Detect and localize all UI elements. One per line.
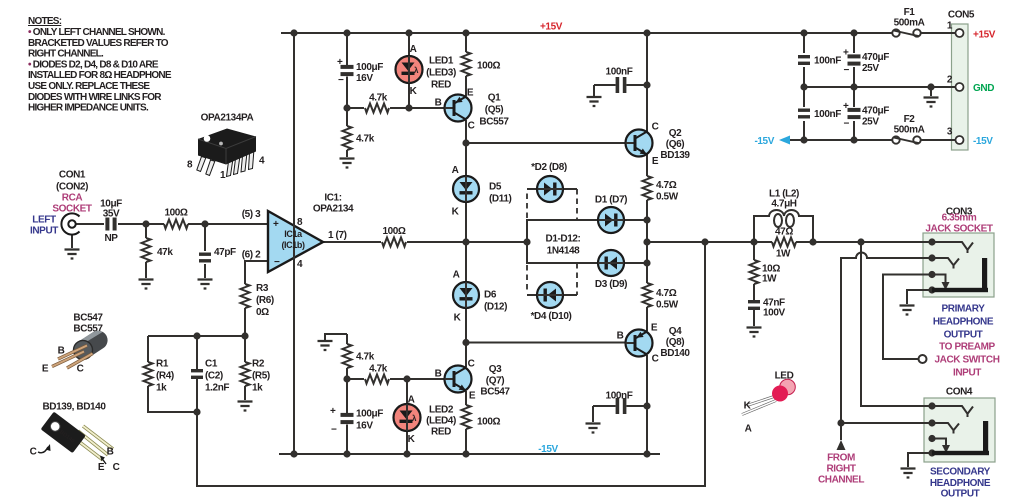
svg-text:25V: 25V	[862, 63, 879, 74]
INDUCTOR L1	[769, 210, 799, 227]
capacitor 470uF psu2	[848, 108, 861, 119]
svg-text:100nF: 100nF	[814, 56, 841, 67]
capacitor 100nF top	[616, 77, 627, 93]
resistor 4.7k bottom vertical	[343, 344, 352, 368]
svg-text:(Q5): (Q5)	[485, 105, 503, 116]
node input dots	[142, 220, 149, 227]
svg-text:INSTALLED FOR 8Ω HEADPHONE: INSTALLED FOR 8Ω HEADPHONE	[28, 70, 172, 81]
svg-text:OPA2134PA: OPA2134PA	[201, 113, 254, 124]
svg-text:E: E	[652, 156, 659, 167]
resistor 47R output	[772, 238, 796, 247]
svg-text:100nF: 100nF	[606, 391, 633, 402]
svg-text:R2: R2	[252, 359, 265, 370]
svg-text:47pF: 47pF	[214, 247, 236, 258]
resistor 4.7k top vertical	[343, 126, 352, 150]
svg-text:*D2 (D8): *D2 (D8)	[531, 162, 567, 173]
svg-text:(LED3): (LED3)	[426, 68, 456, 79]
svg-text:(R6): (R6)	[256, 295, 274, 306]
svg-text:100μF: 100μF	[356, 62, 383, 73]
resistor R2	[241, 362, 250, 386]
svg-text:NOTES:: NOTES:	[28, 16, 62, 27]
wire power gnd row	[804, 87, 951, 96]
svg-text:4.7k: 4.7k	[356, 352, 375, 363]
svg-text:8: 8	[187, 160, 193, 171]
svg-text:F2: F2	[904, 114, 916, 125]
wire CON3 sleeve ground	[907, 290, 928, 304]
svg-text:2: 2	[947, 75, 953, 86]
svg-text:RCA: RCA	[62, 193, 83, 204]
svg-text:USE ONLY. REPLACE THESE: USE ONLY. REPLACE THESE	[28, 81, 150, 92]
svg-text:(CON2): (CON2)	[56, 182, 88, 193]
CON4 box	[921, 398, 995, 462]
svg-text:(C2): (C2)	[205, 371, 223, 382]
svg-text:LEFT: LEFT	[32, 215, 56, 226]
ground 47k	[139, 280, 154, 289]
svg-text:• DIODES D2, D4, D8 & D10 ARE: • DIODES D2, D4, D8 & D10 ARE	[28, 59, 159, 70]
LED2	[394, 404, 421, 431]
transistor Q4 PNP	[626, 330, 653, 357]
transistor Q1 PNP	[445, 95, 472, 122]
ground 100nF top	[587, 97, 602, 106]
svg-text:+15V: +15V	[973, 30, 996, 41]
svg-text:R3: R3	[256, 283, 269, 294]
svg-text:A: A	[453, 270, 460, 281]
svg-text:CON5: CON5	[948, 10, 975, 21]
svg-text:(IC1b): (IC1b)	[281, 240, 305, 250]
svg-text:JACK SOCKET: JACK SOCKET	[925, 224, 993, 235]
svg-text:-15V: -15V	[973, 136, 993, 147]
svg-text:-15V: -15V	[538, 444, 558, 455]
svg-text:6.35mm: 6.35mm	[942, 213, 977, 224]
svg-text:HIGHER IMPEDANCE UNITS.: HIGHER IMPEDANCE UNITS.	[28, 103, 149, 114]
CON3 box	[921, 233, 994, 297]
svg-text:1W: 1W	[776, 249, 791, 260]
resistor 4.7k top horizontal	[365, 104, 389, 113]
wire CON4 sleeve ground	[908, 453, 928, 467]
svg-text:E: E	[98, 462, 105, 473]
svg-text:D1-D12:: D1-D12:	[546, 234, 581, 245]
wire Q1 collector chain x466	[465, 33, 467, 454]
svg-text:A: A	[452, 165, 459, 176]
svg-text:4.7μH: 4.7μH	[771, 199, 796, 210]
svg-text:RED: RED	[431, 80, 451, 91]
svg-text:4: 4	[259, 156, 265, 167]
ground 4.7k bottom	[318, 341, 333, 350]
wire 4.7k bottom-left branch	[325, 334, 347, 454]
wire LED1 branch	[408, 33, 410, 108]
wire L1 loop	[754, 216, 813, 242]
resistor 10R zobel	[750, 260, 759, 284]
svg-text:RED: RED	[431, 427, 451, 438]
svg-text:D3 (D9): D3 (D9)	[595, 279, 627, 290]
wire output line right	[647, 241, 932, 243]
resistor 100R Q3	[462, 405, 471, 429]
svg-text:K: K	[452, 207, 460, 218]
diode D1	[598, 207, 624, 233]
svg-text:100Ω: 100Ω	[477, 61, 500, 72]
diode D3	[598, 250, 624, 276]
svg-text:R1: R1	[156, 359, 169, 370]
resistor 4.7k bottom horizontal	[365, 375, 389, 384]
svg-text:−: −	[844, 65, 850, 76]
svg-text:B: B	[435, 369, 442, 380]
svg-text:4.7k: 4.7k	[356, 134, 375, 145]
svg-text:0.5W: 0.5W	[656, 192, 679, 203]
transistor Q2 NPN	[626, 130, 653, 157]
svg-text:D1 (D7): D1 (D7)	[595, 195, 627, 206]
from-right-channel arrow	[837, 440, 846, 450]
svg-text:−: −	[274, 257, 280, 268]
svg-text:HEADPHONE: HEADPHONE	[930, 478, 991, 489]
capacitor 470uF psu1	[848, 54, 861, 65]
bd139 illustration	[30, 402, 120, 474]
resistor 4.7R top	[643, 176, 652, 200]
svg-text:C: C	[652, 122, 659, 133]
svg-text:E: E	[467, 88, 474, 99]
capacitor 100nF psu2	[798, 109, 810, 119]
svg-text:Q2: Q2	[669, 128, 682, 139]
svg-text:100Ω: 100Ω	[477, 417, 500, 428]
svg-text:B: B	[107, 447, 114, 458]
svg-text:+: +	[843, 48, 849, 59]
wire power -15V row	[786, 139, 951, 141]
svg-text:1.2nF: 1.2nF	[205, 383, 229, 394]
svg-text:E: E	[42, 364, 49, 375]
node rail dots top	[290, 29, 297, 36]
svg-text:OUTPUT: OUTPUT	[944, 330, 983, 341]
wire op-amp output	[323, 241, 527, 243]
svg-text:C: C	[468, 121, 475, 132]
ground 47pF	[198, 280, 213, 289]
capacitor 100nF psu1	[798, 55, 810, 65]
svg-text:(D11): (D11)	[489, 194, 512, 205]
svg-text:(LED4): (LED4)	[426, 416, 456, 427]
wire fuse F1 link	[921, 32, 951, 34]
LED1	[396, 56, 423, 83]
wire CON3 ring with hop	[841, 253, 928, 441]
wire feedback loop	[197, 242, 705, 486]
svg-text:+: +	[273, 219, 279, 230]
svg-text:RIGHT: RIGHT	[826, 464, 855, 475]
svg-text:100nF: 100nF	[814, 109, 841, 120]
resistor 100R input	[164, 220, 188, 229]
capacitor 100uF bottom	[341, 413, 354, 424]
wire op-amp power pin8/pin4 vertical	[293, 33, 295, 454]
svg-text:λ: λ	[414, 66, 419, 75]
resistor 47k input	[142, 238, 151, 262]
wire 4.7k bottom link	[347, 378, 445, 380]
svg-text:8: 8	[297, 217, 303, 228]
svg-text:+: +	[843, 101, 849, 112]
svg-text:F1: F1	[904, 7, 916, 18]
svg-text:(5) 3: (5) 3	[242, 209, 261, 220]
svg-text:100Ω: 100Ω	[164, 208, 187, 219]
svg-text:0.5W: 0.5W	[656, 300, 679, 311]
svg-text:1N4148: 1N4148	[547, 246, 580, 257]
svg-text:Q3: Q3	[489, 364, 502, 375]
svg-text:CHANNEL: CHANNEL	[818, 475, 864, 486]
svg-text:4.7Ω: 4.7Ω	[656, 288, 677, 299]
svg-text:PRIMARY: PRIMARY	[942, 304, 986, 315]
ground 4.7k top	[340, 159, 355, 168]
wire Q3 collector to Q4 base	[466, 342, 627, 344]
svg-text:BC557: BC557	[479, 117, 509, 128]
svg-text:100V: 100V	[763, 308, 785, 319]
resistor 100R Q1	[462, 52, 471, 76]
svg-text:470μF: 470μF	[862, 52, 889, 63]
svg-text:A: A	[745, 424, 752, 435]
svg-text:500mA: 500mA	[894, 18, 925, 29]
svg-text:(Q8): (Q8)	[666, 337, 684, 348]
notes block	[28, 16, 172, 114]
svg-text:RIGHT CHANNEL.: RIGHT CHANNEL.	[28, 49, 104, 60]
svg-text:GND: GND	[973, 83, 994, 94]
wire input line RCA to op-amp	[76, 223, 268, 225]
-15V arrow left	[779, 136, 790, 145]
ground CON4	[901, 469, 916, 478]
svg-text:1 (7): 1 (7)	[328, 230, 347, 241]
wire 100uF top branch	[346, 33, 348, 157]
svg-text:4.7k: 4.7k	[369, 93, 388, 104]
svg-text:4: 4	[297, 259, 303, 270]
svg-text:Q4: Q4	[669, 326, 682, 337]
diode D4	[537, 282, 563, 308]
svg-text:CON4: CON4	[946, 387, 973, 398]
svg-text:(R4): (R4)	[156, 371, 174, 382]
svg-text:A: A	[410, 44, 417, 55]
svg-text:-15V: -15V	[754, 136, 774, 147]
svg-text:*D4 (D10): *D4 (D10)	[531, 311, 572, 322]
node 100nF dots	[643, 81, 650, 88]
ground CON3	[900, 306, 915, 315]
svg-text:BD139: BD139	[660, 150, 690, 161]
svg-text:+: +	[337, 57, 343, 68]
wire inverting input to R3	[245, 261, 268, 336]
svg-text:100Ω: 100Ω	[382, 226, 405, 237]
svg-text:C: C	[652, 354, 659, 365]
node output dots	[701, 238, 708, 245]
capacitor 100uF top	[341, 65, 354, 76]
svg-text:B: B	[435, 98, 442, 109]
svg-text:1: 1	[220, 170, 226, 181]
ground 47nF	[747, 328, 762, 337]
svg-text:C: C	[77, 364, 84, 375]
resistor 100R opamp out	[382, 238, 406, 247]
bc547 illustration	[42, 313, 111, 375]
ground 100nF bottom	[586, 424, 601, 433]
svg-text:−: −	[338, 75, 344, 86]
svg-text:1k: 1k	[252, 383, 263, 394]
svg-text:K: K	[454, 313, 462, 324]
svg-text:FROM: FROM	[827, 453, 855, 464]
svg-text:25V: 25V	[862, 117, 879, 128]
svg-text:BC547: BC547	[480, 387, 510, 398]
wire CON4 feed vertical x861	[861, 242, 928, 406]
wire 47k branch	[145, 224, 147, 278]
svg-text:47k: 47k	[157, 247, 173, 258]
svg-text:B: B	[617, 331, 624, 342]
wire -15V bottom rail	[279, 453, 660, 455]
svg-text:INPUT: INPUT	[953, 368, 981, 379]
svg-text:Q1: Q1	[488, 93, 501, 104]
wire dashed D4 right	[576, 263, 578, 295]
wire +15V top rail	[281, 32, 892, 34]
svg-text:(D12): (D12)	[484, 302, 507, 313]
svg-text:C1: C1	[205, 359, 218, 370]
svg-text:4.7Ω: 4.7Ω	[656, 180, 677, 191]
capacitor 100nF bottom	[616, 398, 627, 414]
svg-text:(Q7): (Q7)	[486, 376, 504, 387]
CON5 box	[950, 24, 968, 150]
wire 4.7k top link	[347, 107, 446, 109]
svg-text:C: C	[30, 447, 37, 458]
wire R3 node row	[148, 336, 245, 412]
wire dashed D4 left	[526, 265, 528, 293]
wire D3 row	[527, 242, 647, 263]
svg-text:K: K	[408, 434, 416, 445]
svg-text:BD139, BD140: BD139, BD140	[42, 402, 106, 413]
wire RCA ground stem	[71, 235, 73, 249]
svg-text:D5: D5	[489, 182, 502, 193]
wire D4 row solid	[527, 294, 577, 296]
svg-text:NP: NP	[104, 233, 118, 244]
svg-text:(6) 2: (6) 2	[242, 250, 261, 261]
node driver dots	[343, 104, 350, 111]
opa2134 package illustration	[187, 113, 265, 182]
svg-text:IC1:: IC1:	[324, 193, 341, 204]
svg-text:D6: D6	[484, 290, 497, 301]
svg-text:100nF: 100nF	[606, 67, 633, 78]
svg-text:HEADPHONE: HEADPHONE	[933, 317, 994, 328]
svg-text:SECONDARY: SECONDARY	[930, 467, 991, 478]
wire Q2 emitter chain x647	[646, 33, 648, 454]
fuse F2	[892, 136, 920, 143]
diode D2	[537, 176, 563, 202]
wire dashed D2 left	[526, 191, 528, 218]
fuse F1	[892, 29, 920, 36]
svg-text:35V: 35V	[103, 209, 120, 220]
node rail dots bottom	[290, 450, 297, 457]
svg-text:SOCKET: SOCKET	[52, 204, 92, 215]
wire power caps verticals	[804, 33, 854, 140]
svg-text:JACK SWITCH: JACK SWITCH	[934, 355, 999, 366]
svg-text:LED1: LED1	[429, 56, 454, 67]
capacitor 47nF zobel	[748, 300, 760, 310]
wire 47pF branch	[204, 224, 206, 278]
wire D1 row	[527, 220, 647, 242]
svg-text:−: −	[844, 119, 850, 130]
svg-text:0Ω: 0Ω	[256, 307, 269, 318]
node ladder dots	[643, 216, 650, 223]
svg-text:INPUT: INPUT	[30, 226, 58, 237]
svg-text:E: E	[469, 391, 476, 402]
svg-text:K: K	[744, 401, 752, 412]
svg-text:16V: 16V	[356, 73, 373, 84]
capacitor C1	[191, 369, 203, 379]
svg-text:A: A	[408, 395, 415, 406]
capacitor 10uF NP input	[105, 218, 116, 231]
svg-text:500mA: 500mA	[894, 125, 925, 136]
svg-text:100μF: 100μF	[356, 409, 383, 420]
dashed D2/D4 boxes	[527, 189, 577, 295]
resistor R1	[144, 362, 153, 386]
svg-text:47Ω: 47Ω	[775, 227, 793, 238]
resistor 4.7R bottom	[643, 283, 652, 307]
wire 100nF bottom	[593, 406, 647, 422]
svg-text:OUTPUT: OUTPUT	[941, 489, 980, 498]
wire CON3 switch to preamp	[883, 275, 928, 360]
svg-text:IC1a: IC1a	[284, 229, 303, 239]
diode D5	[453, 176, 479, 202]
svg-text:4.7k: 4.7k	[369, 364, 388, 375]
diode D6	[453, 282, 479, 308]
wire LED2 branch	[406, 379, 408, 454]
svg-text:DIODES WITH WIRE LINKS FOR: DIODES WITH WIRE LINKS FOR	[28, 92, 162, 103]
ground RCA	[65, 250, 80, 259]
svg-text:+15V: +15V	[540, 22, 563, 33]
wire pass-through diodes	[407, 56, 634, 431]
svg-text:470μF: 470μF	[862, 106, 889, 117]
RCA socket CON1	[61, 213, 79, 234]
svg-text:BC547: BC547	[73, 313, 103, 324]
led illustration	[742, 371, 795, 435]
svg-text:OPA2134: OPA2134	[313, 204, 354, 215]
wire D2 row solid	[527, 188, 577, 190]
svg-text:1W: 1W	[762, 274, 777, 285]
wire Q1 collector to Q2 base	[466, 142, 627, 144]
svg-text:λ: λ	[412, 414, 417, 423]
svg-text:CON1: CON1	[59, 170, 86, 181]
svg-text:BRACKETED VALUES REFER TO: BRACKETED VALUES REFER TO	[28, 38, 169, 49]
wire Zobel branch	[753, 242, 755, 326]
capacitor 47pF	[199, 253, 211, 263]
wire 100nF top	[594, 85, 647, 96]
node R1C1R2 dots	[193, 332, 200, 339]
svg-text:E: E	[651, 323, 658, 334]
preamp terminal circle	[919, 355, 927, 363]
wire dashed D2 right	[576, 189, 578, 220]
ground R2	[238, 402, 253, 411]
svg-text:TO PREAMP: TO PREAMP	[939, 342, 995, 353]
svg-text:16V: 16V	[356, 421, 373, 432]
svg-text:K: K	[410, 86, 418, 97]
svg-text:(R5): (R5)	[252, 371, 270, 382]
svg-text:+: +	[330, 406, 336, 417]
svg-text:1k: 1k	[156, 383, 167, 394]
node power dots	[800, 83, 807, 90]
ground CON5 GND	[924, 98, 939, 107]
transistor Q3 NPN	[445, 366, 472, 393]
resistor R3	[241, 284, 250, 308]
op-amp IC1a	[268, 211, 323, 272]
svg-text:BD140: BD140	[660, 348, 690, 359]
svg-text:C: C	[468, 359, 475, 370]
svg-text:B: B	[58, 346, 65, 357]
svg-text:• ONLY LEFT CHANNEL SHOWN.: • ONLY LEFT CHANNEL SHOWN.	[28, 27, 166, 38]
svg-text:−: −	[331, 425, 337, 436]
svg-text:1: 1	[947, 21, 953, 32]
svg-text:LED2: LED2	[429, 405, 454, 416]
svg-text:3: 3	[947, 127, 953, 138]
svg-text:C: C	[113, 462, 120, 473]
svg-text:(Q6): (Q6)	[666, 139, 684, 150]
